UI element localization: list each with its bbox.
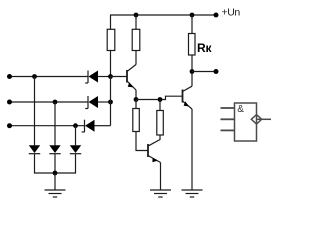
wire R3 top lead: [135, 100, 137, 109]
wire +Un top rail: [110, 14, 216, 16]
diode VD5: [49, 145, 60, 153]
diode VD3: [82, 120, 95, 132]
resistor R1: [107, 29, 115, 50]
node top rail / R2 junction: [134, 13, 139, 18]
node VT2 collector / output junction: [190, 69, 195, 74]
wire R4 top lead: [159, 100, 161, 111]
wire R1 bottom lead: [110, 51, 112, 77]
resistor R3: [133, 109, 140, 132]
node +Un terminal: [214, 13, 219, 18]
node input 2 branch junction: [53, 100, 58, 105]
ground G1: [45, 190, 66, 197]
logic gate U1 box: [235, 103, 257, 141]
node input 1 branch junction: [32, 74, 37, 79]
resistor R4: [157, 111, 164, 136]
svg-text:+Un: +Un: [222, 7, 241, 19]
transistor VT2: [183, 86, 193, 109]
wire VD5 cathode stub: [54, 154, 56, 173]
wire R2 top lead: [135, 15, 137, 29]
node R4 junction: [158, 97, 163, 102]
wire gate input 1: [221, 107, 235, 109]
wire R3 bottom lead to VT3 base: [136, 132, 148, 151]
wire diode bus: [35, 154, 76, 173]
node diode 2 column junction: [108, 100, 113, 105]
node input 1 terminal: [7, 74, 12, 79]
wire VD2 anode to node column: [98, 101, 111, 103]
svg-text:Rк: Rк: [197, 41, 212, 55]
wire VD3 anode to node column: [95, 125, 111, 127]
node top rail / Rk junction: [190, 13, 195, 18]
wire R4 bottom lead to VT3 collector: [149, 135, 161, 146]
diode VD6: [70, 145, 81, 153]
wire R2 bottom lead to VT1 collector: [135, 51, 137, 65]
transistor VT1: [127, 65, 136, 91]
diode VD4: [29, 145, 40, 153]
ground G3: [182, 190, 203, 197]
wire Rk top lead: [191, 15, 193, 34]
wire VT1 base: [111, 76, 128, 78]
wire input1 branch vertical: [34, 77, 36, 146]
node input 2 terminal: [7, 100, 12, 105]
wire gate input 2: [221, 118, 235, 120]
node diode/R1/VT1-base junction: [108, 74, 113, 79]
ground G2: [150, 190, 171, 197]
wire input3 branch vertical: [75, 126, 77, 146]
node diode bus junction: [53, 171, 58, 176]
svg-text:&: &: [237, 104, 244, 115]
wire gate output: [257, 118, 272, 120]
resistor R2: [132, 29, 140, 50]
wire gate input 3: [221, 129, 235, 131]
transistor VT3: [148, 144, 161, 163]
wire VT2 emitter to ground: [191, 109, 193, 190]
wire R1 top lead: [110, 15, 112, 29]
node VT1 emitter / R3 junction: [134, 97, 139, 102]
wire output: [192, 71, 216, 73]
resistor Rk: [189, 34, 196, 56]
diode VD2: [85, 96, 98, 109]
wire VT3 emitter to ground: [160, 163, 162, 190]
node input 3 terminal: [7, 123, 12, 128]
wire bus to ground: [54, 173, 56, 190]
wire input2 branch vertical: [54, 102, 56, 145]
gate U1 open-collector diamond output: [251, 115, 261, 124]
node output terminal: [214, 69, 219, 74]
wire Rk bottom lead: [191, 55, 193, 72]
wire VT2 collector lead: [191, 72, 193, 87]
wire VD1 anode to node column: [98, 76, 111, 78]
wire input 2: [10, 101, 89, 103]
diode VD1: [85, 71, 98, 84]
wire VT1 emitter lead: [135, 90, 137, 100]
wire node column: [110, 77, 112, 126]
node input 3 branch junction: [73, 123, 78, 128]
wire input 1: [10, 76, 89, 78]
wire emitter node to VT2 base: [136, 96, 182, 99]
wire input 3: [10, 125, 85, 127]
